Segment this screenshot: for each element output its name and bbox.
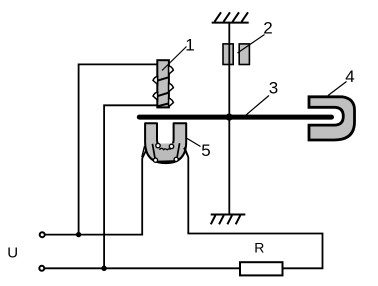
svg-text:U: U <box>7 245 18 262</box>
svg-text:R: R <box>254 240 264 256</box>
svg-text:4: 4 <box>345 67 354 86</box>
svg-text:1: 1 <box>185 36 194 55</box>
svg-text:3: 3 <box>269 78 278 97</box>
svg-text:2: 2 <box>263 19 272 38</box>
svg-text:5: 5 <box>201 141 210 160</box>
